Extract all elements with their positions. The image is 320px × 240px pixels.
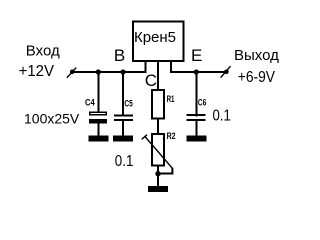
wire pin E to output bbox=[170, 71, 225, 73]
svg-text:C6: C6 bbox=[198, 98, 206, 108]
capacitor C5 bbox=[114, 72, 133, 136]
ground R2 bbox=[148, 186, 168, 192]
pin E lead bbox=[170, 62, 172, 73]
trimmer resistor R2 bbox=[142, 134, 173, 174]
svg-text:100х25V: 100х25V bbox=[24, 110, 80, 126]
svg-text:Е: Е bbox=[191, 46, 202, 65]
svg-text:0.1: 0.1 bbox=[213, 108, 231, 125]
output terminal X2 bbox=[221, 66, 231, 78]
ground C4 bbox=[88, 136, 108, 142]
svg-text:C4: C4 bbox=[85, 98, 95, 108]
pin C lead bbox=[157, 62, 159, 90]
svg-text:R1: R1 bbox=[167, 94, 175, 104]
node junction C5 bbox=[120, 69, 125, 74]
svg-text:R2: R2 bbox=[167, 131, 176, 141]
input terminal X1 bbox=[67, 68, 76, 78]
resistor R1 bbox=[152, 90, 164, 119]
svg-text:C5: C5 bbox=[124, 98, 132, 108]
svg-text:С: С bbox=[145, 71, 157, 90]
svg-text:В: В bbox=[114, 46, 125, 65]
node junction R2 wiper bbox=[155, 171, 160, 176]
svg-text:0.1: 0.1 bbox=[115, 153, 134, 170]
ground C5 bbox=[113, 136, 133, 142]
svg-text:Выход: Выход bbox=[234, 47, 279, 64]
wire R1 to R2 bbox=[157, 120, 159, 135]
voltage regulator U1 Крен5 box bbox=[133, 22, 184, 62]
svg-text:+12V: +12V bbox=[19, 63, 55, 80]
capacitor C6 bbox=[187, 72, 206, 136]
svg-text:Крен5: Крен5 bbox=[134, 29, 176, 46]
node junction C4 bbox=[96, 69, 101, 74]
node junction C6 bbox=[194, 69, 199, 74]
ground C6 bbox=[186, 136, 206, 142]
pin B lead bbox=[145, 62, 147, 73]
wire R2 to ground bbox=[157, 167, 159, 187]
capacitor C4 (electrolytic) bbox=[89, 72, 107, 136]
svg-text:Вход: Вход bbox=[26, 43, 60, 60]
wire input to pin B bbox=[74, 71, 147, 73]
svg-text:+6-9V: +6-9V bbox=[238, 69, 275, 86]
